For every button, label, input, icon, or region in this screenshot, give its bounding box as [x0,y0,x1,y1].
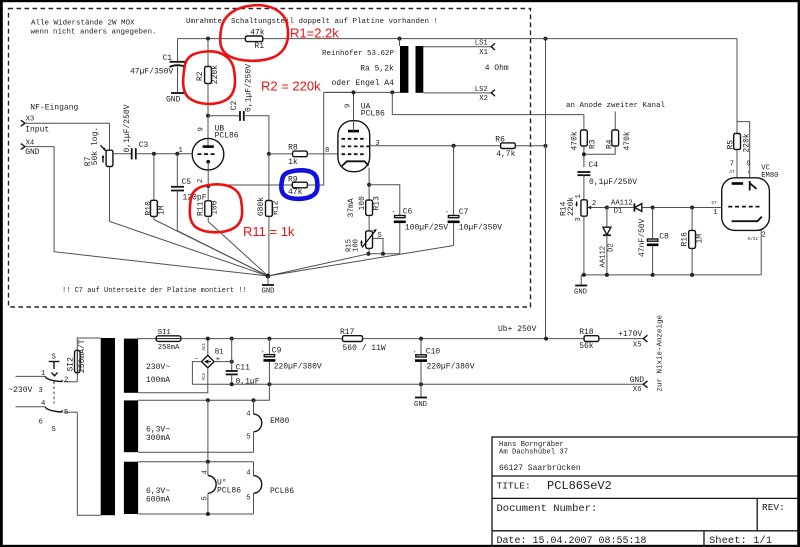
svg-text:0,1µF/250V: 0,1µF/250V [244,64,253,112]
triode UB [179,116,239,186]
pentode UA [338,103,385,172]
svg-text:5: 5 [201,496,209,500]
svg-text:GND: GND [414,401,427,409]
node g2 supply [544,144,548,148]
svg-text:R2: R2 [196,71,205,81]
svg-text:PCL86: PCL86 [217,486,241,495]
svg-text:470k: 470k [571,131,580,150]
node to second channel line [390,90,394,94]
wire B1 plus to C11 [214,361,232,363]
terminal X6 [630,376,648,394]
wire anode line to R3 (an Anode) [392,92,584,114]
heater PCL86 second [246,462,294,514]
capacitor C7 [446,146,502,246]
red circle around R2 [183,51,235,104]
svg-text:AT: AT [730,171,736,175]
svg-text:470k: 470k [623,131,632,150]
svg-text:oder Engel A4: oder Engel A4 [332,79,395,88]
svg-text:C3: C3 [139,141,149,150]
node junction R2/top rail [206,37,210,41]
svg-text:C7: C7 [459,208,469,217]
capacitor C2 [230,64,254,121]
ground EM80 section [574,275,587,297]
svg-text:EM80: EM80 [761,172,778,180]
svg-text:X5: X5 [633,341,642,349]
svg-text:100µF/25V: 100µF/25V [405,224,448,233]
junction heater rail EM80 [252,398,256,402]
svg-text:LS2: LS2 [475,86,488,94]
svg-text:100: 100 [358,196,367,211]
svg-text:EM80: EM80 [270,417,289,426]
svg-text:GND: GND [630,376,645,385]
svg-text:-: - [195,355,199,363]
transformer primary winding [101,338,115,515]
svg-text:5: 5 [246,495,250,503]
svg-text:100: 100 [353,239,361,252]
svg-text:1M: 1M [696,234,705,244]
node anode UB / C2 [206,114,210,118]
wire top supply rail [178,38,738,40]
wire EM80 cathode pin2 down [760,230,762,275]
svg-text:X1: X1 [479,49,488,57]
wire C5 to star ground [177,231,268,276]
svg-text:C9: C9 [272,347,282,356]
svg-text:0,1µF: 0,1µF [236,378,260,387]
capacitor C5 [171,154,207,231]
svg-text:AC1: AC1 [203,342,207,350]
junction R15 bottom [366,252,370,256]
resistor R17 [340,328,386,353]
svg-text:C6: C6 [403,207,413,216]
mains line L [16,375,46,377]
wire B+ rail Ub+ [181,338,643,340]
svg-text:PCL86: PCL86 [215,132,239,141]
svg-text:9: 9 [198,127,206,131]
svg-text:56k: 56k [579,342,594,351]
node rail C11 [230,337,234,341]
svg-text:6: 6 [39,419,43,427]
transformer secondary winding 1 (230V) [124,339,138,393]
node Ub+ [544,337,548,341]
fuse SI1 [156,329,181,352]
svg-text:66127 Saarbrücken: 66127 Saarbrücken [499,464,581,473]
svg-text:R18: R18 [579,328,594,337]
resistor R18 [579,328,599,351]
junction C10 gnd [419,382,423,386]
svg-text:R6: R6 [495,136,505,145]
junction heater return [206,512,210,516]
svg-text:7: 7 [730,161,734,169]
svg-text:600mA: 600mA [146,496,170,505]
svg-text:230V~: 230V~ [146,363,170,372]
speaker terminal LS1/X1 [423,40,495,57]
svg-text:300mA: 300mA [146,434,170,443]
wire primary bottom [325,91,401,93]
svg-text:AC2: AC2 [203,372,207,380]
resistor R16 [681,208,705,275]
node R16 [690,206,694,210]
svg-text:GND: GND [25,148,40,157]
svg-text:R10: R10 [145,201,154,216]
wire fuse to primary top [77,338,100,350]
wire pole2 to primary bottom [77,412,100,515]
svg-text:C8: C8 [659,233,669,242]
node B1 AC1 [206,337,210,341]
svg-text:C11: C11 [236,363,251,372]
svg-text:an Anode zweiter Kanal: an Anode zweiter Kanal [566,102,666,110]
svg-text:R11: R11 [197,201,206,216]
svg-text:3: 3 [575,217,583,221]
output transformer TR1 [400,39,424,93]
resistor R12 [257,154,280,276]
junction C11 gnd [230,382,234,386]
node R8/R12/C2 [267,152,271,156]
svg-text:AA112: AA112 [611,200,633,208]
connector X3 [21,116,110,135]
svg-text:R8: R8 [288,143,298,152]
svg-text:4: 4 [246,470,250,478]
node cathode UB [206,184,210,188]
svg-text:AA112: AA112 [600,246,608,268]
node plus [230,360,234,364]
wire wiper line to D1 [607,207,634,209]
resistor R3 [571,115,598,167]
blue circle around R9 [281,170,317,199]
svg-text:C1: C1 [163,54,173,63]
junction R15 wiper [381,252,385,256]
junction C9 gnd [267,382,271,386]
svg-text:Ub+ 250V: Ub+ 250V [498,325,537,334]
switch S pole 2 [39,400,78,434]
wire C7 to star ground [268,246,454,277]
dashed box (duplicated section frame) [9,9,531,308]
svg-text:1: 1 [713,209,717,217]
svg-text:TITLE:: TITLE: [497,481,531,492]
wire X4 down to star ground [54,147,268,276]
svg-text:220k: 220k [211,65,220,84]
svg-text:47nF/50V: 47nF/50V [638,218,647,257]
heater EM80 return [138,451,253,453]
capacitor C8 [638,208,669,275]
svg-text:PCL86: PCL86 [270,487,294,496]
note text top left [31,20,157,37]
svg-text:Date: 15.04.2007 08:55:18: Date: 15.04.2007 08:55:18 [497,536,647,547]
ground at C10 [414,384,427,409]
diode D1 [611,200,722,216]
switch S pole 1 [39,354,78,396]
svg-text:R13: R13 [372,196,381,211]
resistor R6 [495,136,515,159]
svg-text:R2 = 220k: R2 = 220k [261,79,321,94]
svg-text:S: S [52,354,56,362]
svg-text:C4: C4 [588,161,598,170]
svg-text:Sheet: 1/1: Sheet: 1/1 [709,535,772,547]
svg-text:SI2: SI2 [67,357,76,372]
B+ vertical wire [545,39,547,339]
svg-text:250mA/T: 250mA/T [78,339,87,373]
wire EM80 grid entry [717,207,722,209]
node junction transformer primary top [398,37,402,41]
link winding2/winding3 [207,400,209,461]
svg-text:X2: X2 [479,95,488,103]
wire B1 AC2 to winding bottom [138,368,208,393]
svg-text:560 / 11W: 560 / 11W [343,344,386,353]
gnd return line PSU [192,383,643,385]
svg-text:+: + [216,356,220,364]
svg-text:Reinhöfer 53.62P: Reinhöfer 53.62P [322,50,395,58]
junction R14 bottom [582,273,586,277]
svg-text:Input: Input [25,126,49,135]
svg-text:REV:: REV: [762,502,785,513]
svg-text:R4: R4 [606,139,615,149]
resistor R2 [196,39,220,116]
node C7 tap [452,144,456,148]
wire R10 to star ground [154,220,268,277]
svg-text:220µF/380V: 220µF/380V [274,362,322,371]
svg-text:X6: X6 [633,386,642,394]
svg-text:250mA: 250mA [158,344,180,352]
node R10 tap [152,152,156,156]
fuse SI2 [67,339,88,382]
svg-text:GT: GT [712,202,718,206]
svg-text:PCL86: PCL86 [361,109,385,118]
capacitor C10 [413,337,475,385]
capacitor C4 [577,161,637,200]
node cathode UA [367,183,371,187]
svg-text:50k log.: 50k log. [91,127,100,165]
heater winding3 return [138,513,253,515]
node C8 [651,206,655,210]
capacitor C6 [392,207,448,254]
TITLE BLOCK [492,437,798,547]
svg-text:9: 9 [345,104,353,108]
wire UA anode up to transformer [353,92,355,131]
ground at star [262,276,275,296]
svg-text:4 Ohm: 4 Ohm [485,64,509,73]
transformer secondary winding 3 (6,3V 600mA) [124,462,138,514]
resistor R4 [584,112,632,155]
svg-text:NF-Eingang: NF-Eingang [30,104,78,113]
wire R7 bottom to star ground [110,221,269,276]
svg-text:C5: C5 [182,178,192,187]
junction C8 bottom [651,273,655,277]
svg-text:R9: R9 [288,175,298,184]
svg-text:4: 4 [246,411,250,419]
svg-text:R12: R12 [271,200,280,215]
svg-text:680k: 680k [257,197,266,216]
potentiometer R14 [560,194,607,275]
svg-text:8: 8 [325,147,329,155]
svg-text:3: 3 [39,387,43,395]
svg-text:GND: GND [262,288,275,296]
wire C3 to grid UB [136,153,193,155]
svg-text:S: S [52,426,56,434]
resistor R8 [269,143,338,167]
svg-text:+170V: +170V [618,330,642,339]
capacitor C3 [123,104,149,159]
wire cathode to R9 [208,184,292,186]
svg-text:0,1µF/250V: 0,1µF/250V [589,178,637,187]
svg-text:10µF/350V: 10µF/350V [459,224,502,233]
svg-text:1k: 1k [288,158,298,167]
svg-text:wenn nicht anders angegeben.: wenn nicht anders angegeben. [31,29,157,37]
svg-text:120pF: 120pF [183,193,207,202]
svg-text:37mA: 37mA [347,198,356,217]
node C5 tap [175,152,179,156]
svg-text:220µF/380V: 220µF/380V [427,363,475,372]
svg-text:D2: D2 [608,243,616,252]
wire to C2 [208,115,239,117]
svg-text:47k: 47k [250,28,265,37]
bottom line EM80 section [581,274,761,276]
svg-text:Alle Widerstände 2W MOX: Alle Widerstände 2W MOX [31,20,135,28]
svg-text:Am Dachshübel 37: Am Dachshübel 37 [499,449,568,457]
svg-text:2: 2 [762,232,766,240]
resistor R9 (feedback) [288,175,307,197]
svg-text:R5: R5 [726,140,735,150]
svg-text:R1: R1 [254,42,264,51]
svg-text:1: 1 [575,194,583,198]
resistor R11 [197,186,220,221]
junction D2 bottom [605,273,609,277]
wire B1 minus to gnd line [192,362,201,385]
svg-text:zur Nixie-Anzeige: zur Nixie-Anzeige [657,315,665,392]
bridge rectifier B1 [195,339,224,381]
wire R11 to star ground [208,222,268,277]
speaker terminal LS2/X2 [423,86,495,103]
wire C2 to R8 node [244,116,269,154]
svg-text:K/S1: K/S1 [748,237,759,242]
svg-text:4: 4 [201,470,209,474]
trimmer R15 [346,215,384,253]
diode D2 [600,208,616,275]
tube VC EM80 [712,161,779,242]
heater EM80 [246,400,289,452]
svg-text:C2: C2 [230,100,239,110]
wire R15 to star ground [268,254,368,276]
switch link dashed [53,382,55,404]
svg-text:100: 100 [211,200,220,215]
svg-text:9: 9 [746,161,750,169]
resistor R13 [347,196,382,218]
svg-text:R1=2.2k: R1=2.2k [290,26,339,41]
svg-text:1M: 1M [158,205,167,215]
svg-text:LS1: LS1 [475,40,488,48]
star ground node [266,274,271,279]
red circle around R1 [220,5,288,61]
heater rail winding3 top [138,461,253,463]
svg-text:100mA: 100mA [146,376,170,385]
svg-text:X3: X3 [26,116,35,124]
resistor R1 [245,28,264,51]
junction heater rail left [206,398,210,402]
svg-text:47µF/350V: 47µF/350V [130,67,173,76]
node anode/feedback [352,90,356,94]
heater UP PCL86 [201,462,241,514]
terminal X5 [618,330,647,349]
resistor R5 [726,39,751,178]
svg-text:2: 2 [197,179,205,183]
svg-text:Document Number:: Document Number: [497,503,598,515]
svg-text:R16: R16 [681,232,690,247]
junction heater rail3 [206,460,210,464]
HV secondary top rail [138,338,156,340]
heater rail winding2 top [138,384,269,400]
svg-text:0,1µF/250V: 0,1µF/250V [123,104,132,152]
svg-text:4,7k: 4,7k [496,150,515,159]
svg-text:5: 5 [64,409,68,417]
svg-text:SI1: SI1 [158,329,171,337]
cathode UA wire [368,168,370,201]
transformer secondary winding 2 (6,3V 300mA) [124,400,138,452]
capacitor C11 [226,339,260,387]
svg-text:R17: R17 [340,328,355,337]
mains line N [16,406,46,408]
svg-text:Ra 5,2k: Ra 5,2k [360,64,394,73]
wire R9 up to UA anode node [307,92,353,185]
svg-text:1: 1 [41,370,45,378]
svg-text:PCL86SeV2: PCL86SeV2 [547,479,612,493]
svg-text:D1: D1 [614,207,623,215]
svg-text:~230V: ~230V [8,386,32,395]
capacitor C1 [130,39,186,93]
ground at C1 [166,93,184,105]
svg-text:5: 5 [246,433,250,441]
svg-text:2: 2 [592,200,596,208]
node R3/R4 [582,152,586,156]
wire cathode to C6 [369,185,400,216]
svg-text:3: 3 [375,140,379,148]
bottom cathode network line [368,253,399,255]
capacitor C9 [262,337,322,385]
svg-text:2: 2 [64,377,68,385]
svg-text:R3: R3 [589,139,598,149]
wire g2 pin 3 [370,145,546,147]
svg-text:GND: GND [166,96,181,105]
connector X4 [21,140,54,158]
svg-text:C10: C10 [426,347,441,356]
svg-text:R11 = 1k: R11 = 1k [243,224,295,239]
transformer note text [322,50,395,88]
svg-text:4: 4 [41,400,45,408]
red circle around R11 [190,184,242,232]
winding labels [146,363,170,505]
junction R16 bottom [690,273,694,277]
svg-text:GND: GND [574,289,587,297]
svg-text:!! C7 auf Unterseite der Plati: !! C7 auf Unterseite der Platine montier… [62,287,247,295]
node junction B+ feed [544,37,548,41]
resistor R10 [145,154,167,220]
potentiometer R7 [84,123,132,221]
node wiper/D2 [605,206,609,210]
svg-text:220k: 220k [567,197,576,216]
wire pin9 branch [737,122,750,178]
